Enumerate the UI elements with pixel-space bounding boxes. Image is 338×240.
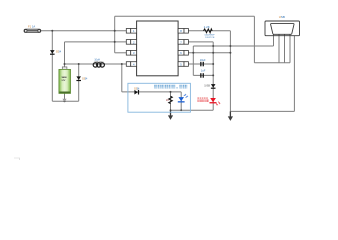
svg-text:10uF: 10uF xyxy=(200,58,206,62)
svg-text:1N58: 1N58 xyxy=(204,84,210,87)
svg-text:1uF: 1uF xyxy=(201,69,206,73)
svg-text:1201TCE: 1201TCE xyxy=(205,37,215,39)
svg-text:SMD0630: SMD0630 xyxy=(94,62,104,64)
svg-text:USB: USB xyxy=(279,15,285,19)
svg-text:1.2K: 1.2K xyxy=(204,25,210,29)
svg-text:1A: 1A xyxy=(32,25,35,29)
svg-text:1K: 1K xyxy=(166,99,169,102)
